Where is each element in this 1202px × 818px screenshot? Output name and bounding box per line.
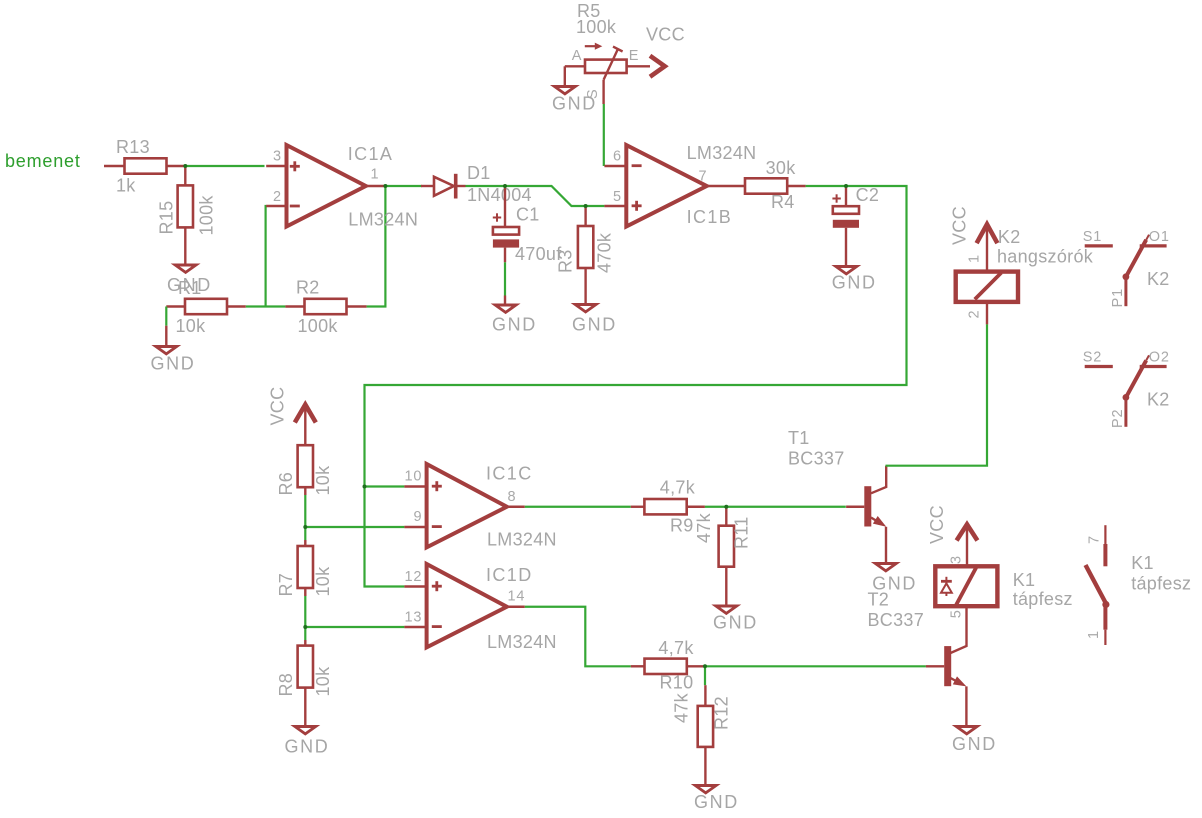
ground GND (C1) — [492, 305, 537, 335]
resistor R8 10k — [276, 640, 333, 726]
svg-text:GND: GND — [151, 354, 196, 374]
resistor R15 — [157, 166, 217, 265]
svg-text:VCC: VCC — [927, 505, 947, 544]
wire R6-R7 node — [304, 495, 306, 540]
svg-text:E: E — [629, 48, 639, 64]
ground GND (R8) — [285, 727, 330, 757]
capacitor C1 470uf — [493, 186, 562, 264]
svg-text:GND: GND — [713, 613, 758, 633]
svg-text:K2: K2 — [1147, 269, 1170, 289]
resistor R1 — [166, 299, 246, 336]
svg-text:2: 2 — [273, 189, 282, 205]
wire D1 to pin5 node — [466, 186, 605, 206]
resistor R3 470k — [556, 206, 615, 304]
svg-text:tápfesz: tápfesz — [1131, 574, 1191, 594]
svg-text:P2: P2 — [1110, 409, 1126, 428]
wire spur to pin10 — [365, 485, 405, 487]
svg-text:GND: GND — [572, 315, 617, 335]
junction node — [183, 164, 187, 168]
svg-text:47k: 47k — [672, 692, 692, 723]
svg-text:GND: GND — [552, 94, 597, 114]
wire node to pin9 — [305, 526, 404, 528]
op-amp IC1C — [404, 464, 556, 550]
svg-text:T1: T1 — [788, 428, 810, 448]
svg-text:1N4004: 1N4004 — [467, 185, 532, 205]
svg-text:LM324N: LM324N — [687, 143, 757, 163]
switch contact K2 (S2/O2/P2) — [1083, 349, 1170, 428]
svg-text:R11: R11 — [732, 516, 752, 549]
svg-text:47k: 47k — [694, 512, 714, 543]
wire R1 left to ground — [165, 307, 167, 326]
power VCC (R5) — [646, 25, 685, 77]
svg-text:9: 9 — [414, 509, 423, 525]
svg-text:100k: 100k — [576, 17, 617, 37]
svg-text:6: 6 — [613, 149, 622, 165]
resistor R6 10k — [276, 445, 333, 495]
power VCC (R6) — [268, 387, 316, 446]
svg-text:10k: 10k — [176, 316, 207, 336]
svg-text:14: 14 — [508, 589, 526, 605]
svg-text:R15: R15 — [157, 201, 177, 235]
svg-text:O2: O2 — [1149, 349, 1170, 365]
svg-text:K1: K1 — [1131, 553, 1154, 573]
relay K1 tápfesz — [927, 505, 1073, 618]
svg-text:LM324N: LM324N — [487, 530, 557, 550]
junction node — [724, 505, 728, 509]
svg-text:IC1A: IC1A — [348, 144, 394, 164]
svg-text:R3: R3 — [556, 249, 576, 273]
svg-text:10k: 10k — [313, 666, 333, 697]
trimmer R5 100k — [565, 1, 650, 104]
svg-text:4,7k: 4,7k — [660, 478, 696, 498]
svg-text:R7: R7 — [276, 573, 296, 597]
resistor R11 47k — [694, 507, 752, 606]
junction node — [303, 525, 307, 529]
junction node — [584, 204, 588, 208]
wire R9 to T1 base — [705, 506, 846, 508]
svg-text:10: 10 — [405, 469, 423, 485]
transistor T2 BC337 — [868, 590, 967, 727]
svg-text:R8: R8 — [276, 673, 296, 697]
relay K2 hangszórók — [950, 206, 1094, 324]
svg-text:C2: C2 — [856, 185, 880, 205]
svg-text:R4: R4 — [771, 192, 795, 212]
svg-text:13: 13 — [405, 610, 423, 626]
junction node — [383, 184, 387, 188]
ground GND (R12) — [694, 786, 739, 813]
wire node R13/R15 to pin3 — [185, 165, 264, 167]
resistor R9 4,7k — [631, 478, 705, 536]
svg-text:R2: R2 — [296, 278, 320, 298]
junction node — [303, 625, 307, 629]
svg-text:A: A — [572, 48, 582, 64]
resistor R13 — [104, 137, 185, 196]
ground GND (T2) — [952, 727, 997, 755]
wire net R1-R2 / pin2 — [246, 305, 286, 307]
resistor R4 30k — [745, 158, 806, 212]
svg-text:12: 12 — [405, 569, 423, 585]
wire K2 pin2 to T1 collector — [886, 324, 988, 465]
ground GND (T1) — [872, 564, 917, 594]
wire feedback net from R4 — [365, 186, 907, 587]
svg-text:K2: K2 — [1147, 389, 1170, 409]
svg-text:R13: R13 — [116, 137, 150, 157]
svg-text:C1: C1 — [516, 205, 540, 225]
svg-text:GND: GND — [167, 275, 212, 295]
svg-text:S1: S1 — [1083, 229, 1102, 245]
switch contact K1 (7/1) — [1086, 525, 1192, 645]
svg-text:3: 3 — [273, 149, 282, 165]
wire C1 to ground — [504, 262, 506, 295]
resistor R2 — [285, 278, 366, 337]
svg-text:K1: K1 — [1013, 570, 1036, 590]
svg-text:VCC: VCC — [950, 206, 970, 245]
wire R5 wiper to pin6 — [603, 104, 605, 166]
svg-text:1k: 1k — [116, 176, 136, 196]
ground GND (R15) — [167, 265, 212, 298]
wire node to pin13 — [305, 626, 404, 628]
capacitor C2 — [832, 185, 879, 266]
svg-text:GND: GND — [832, 272, 877, 292]
resistor R7 10k — [276, 540, 333, 597]
transistor T1 BC337 — [788, 428, 886, 563]
diode D1 1N4004 — [421, 163, 532, 205]
svg-text:R10: R10 — [660, 673, 694, 693]
svg-text:30k: 30k — [766, 158, 797, 178]
wire pin14 to R10 — [525, 607, 631, 667]
svg-text:3: 3 — [949, 555, 965, 564]
svg-text:GND: GND — [952, 734, 997, 754]
svg-text:8: 8 — [508, 489, 517, 505]
switch contact K2 (S1/O1/P1) — [1083, 229, 1170, 308]
svg-text:IC1B: IC1B — [687, 207, 733, 227]
svg-text:1: 1 — [371, 167, 380, 183]
resistor R12 47k — [672, 685, 732, 785]
svg-text:BC337: BC337 — [868, 610, 925, 630]
svg-text:VCC: VCC — [646, 25, 685, 45]
junction node — [703, 664, 707, 668]
ground GND (C2) — [832, 267, 877, 293]
svg-text:1: 1 — [966, 254, 982, 263]
svg-text:5: 5 — [949, 609, 965, 618]
wire R2 right to output node — [367, 186, 386, 307]
ground GND (R1) — [151, 347, 196, 374]
wire drop to R12 — [704, 666, 706, 685]
svg-text:100k: 100k — [298, 316, 339, 336]
junction node — [503, 184, 507, 188]
svg-text:4,7k: 4,7k — [658, 638, 694, 658]
svg-text:7: 7 — [699, 169, 708, 185]
svg-text:D1: D1 — [467, 163, 491, 183]
ground GND (R3) — [572, 305, 617, 335]
svg-text:T2: T2 — [868, 590, 890, 610]
svg-text:GND: GND — [694, 792, 739, 812]
op-amp IC1A — [266, 144, 418, 230]
wire R7-R8 node — [304, 596, 306, 640]
svg-text:GND: GND — [285, 737, 330, 757]
svg-text:K2: K2 — [998, 227, 1021, 247]
svg-text:7: 7 — [1087, 535, 1103, 544]
svg-text:10k: 10k — [313, 465, 333, 496]
svg-text:5: 5 — [613, 189, 622, 205]
svg-text:BC337: BC337 — [788, 449, 845, 469]
svg-text:S2: S2 — [1083, 349, 1102, 365]
resistor R10 4,7k — [631, 638, 705, 693]
svg-text:GND: GND — [492, 315, 537, 335]
svg-text:1: 1 — [1086, 630, 1102, 639]
ground GND (R11) — [713, 606, 758, 633]
svg-text:470k: 470k — [595, 232, 615, 273]
svg-text:bemenet: bemenet — [5, 151, 81, 171]
wire R10 to T2 base — [705, 665, 926, 667]
svg-text:P1: P1 — [1110, 288, 1126, 307]
op-amp IC1B — [604, 143, 756, 227]
svg-text:IC1D: IC1D — [486, 565, 533, 585]
op-amp IC1D — [404, 564, 556, 652]
svg-text:R6: R6 — [276, 472, 296, 496]
wire pin1 to D1 — [385, 185, 422, 187]
svg-text:tápfesz: tápfesz — [1013, 589, 1073, 609]
svg-text:O1: O1 — [1149, 229, 1170, 245]
svg-text:10k: 10k — [313, 566, 333, 597]
svg-text:R12: R12 — [712, 696, 732, 730]
svg-text:R9: R9 — [670, 516, 694, 536]
svg-text:hangszórók: hangszórók — [997, 247, 1094, 267]
junction node — [844, 184, 848, 188]
junction node — [363, 485, 367, 489]
svg-text:IC1C: IC1C — [486, 464, 533, 484]
svg-text:100k: 100k — [197, 195, 217, 236]
svg-text:2: 2 — [966, 310, 982, 319]
svg-text:VCC: VCC — [268, 387, 288, 426]
ground GND (R5) — [552, 87, 597, 114]
svg-text:LM324N: LM324N — [348, 210, 418, 230]
wire pin8 to R9 — [525, 506, 631, 508]
svg-text:LM324N: LM324N — [487, 632, 557, 652]
